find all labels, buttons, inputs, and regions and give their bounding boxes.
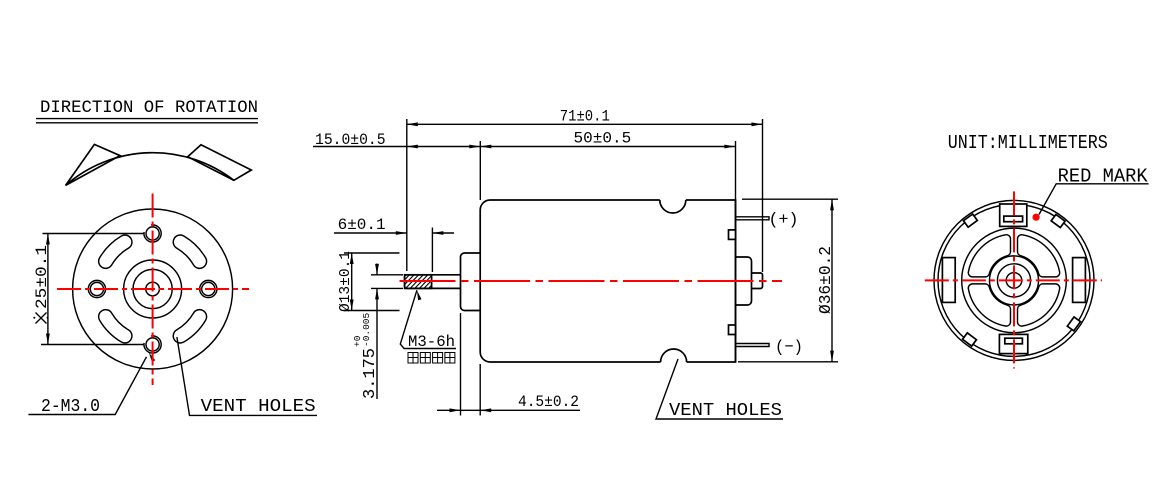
dim line 15.0 / 50 shared row [313,146,735,148]
rear bearing boss (side) [736,257,752,305]
front vent slot 3 [99,310,132,343]
M3-6h leader [400,290,456,348]
rear top tab slot [1004,216,1023,222]
svg-text:DIRECTION OF ROTATION: DIRECTION OF ROTATION [40,98,258,118]
svg-text:50±0.5: 50±0.5 [574,130,632,148]
side view motor body [480,200,735,362]
title double underline [36,118,258,120]
front shaft circle [146,282,160,296]
front mounting hole S inner circle [146,338,159,351]
rear view inner rim circle [938,204,1090,356]
front view red centerline horizontal [57,288,249,290]
threaded shaft section M3 (hatched) [391,274,457,290]
red mark dot [1033,214,1040,221]
front hole S thread arc (3/4 circle) [144,336,161,353]
front hole W outer circle [88,280,105,297]
ext line right (rear nub) [762,119,764,272]
rear right side plate [1073,258,1086,303]
side body right edge vertical [735,200,737,362]
rear crimp tab at 233.0° [963,333,977,346]
front view motor outer circle [73,209,233,369]
brush tab lower (side) [729,325,736,335]
bottom vent notch (side) [661,349,687,362]
front boss circle [124,260,182,318]
front mounting hole E inner circle [202,282,215,295]
dim 25±0.1 extension line top [43,233,145,235]
VENT HOLES (side) underline and leader [656,359,783,419]
svg-text:UNIT:MILLIMETERS: UNIT:MILLIMETERS [948,132,1108,154]
4.5 ext lines [460,313,462,416]
rear crimp tab at 126.1° [963,214,977,227]
ext line left (shaft tip) [406,119,408,271]
rear shaft nub [752,273,763,289]
rotation arrow tail vane [188,145,252,181]
dim 25±0.1 dimension line [47,234,49,345]
front mounting hole N inner circle [146,227,159,240]
svg-text:6±0.1: 6±0.1 [338,216,386,234]
VENT HOLES underline and leader [177,337,317,415]
dim 25±0.1 extension line bottom [41,344,144,346]
svg-text:-0.005: -0.005 [361,312,372,347]
svg-text:4.5±0.2: 4.5±0.2 [518,393,579,411]
Ø13 ext lines [344,252,400,254]
front view red centerline vertical [152,194,154,386]
rear red centerline vertical [1013,191,1015,368]
label 右旋螺纹 (right-hand thread, CJK glyph shapes) [408,353,455,364]
rear vent slot 4 [968,235,1010,277]
rear vent slot 2 [1018,284,1060,326]
svg-text:VENT HOLES: VENT HOLES [201,397,316,417]
rear left side plate [942,258,955,303]
Ø36 ext lines [742,198,838,200]
front vent slot 4 [173,310,206,343]
rotation direction curved arrow [66,153,234,186]
front mounting hole W inner circle [90,282,103,295]
rear red centerline horizontal [925,279,1102,281]
dim Ø36 dimension line [831,199,833,362]
dim text ※25±0.1 (rotated) [33,245,51,309]
thread section outline [405,275,432,289]
rear bottom terminal tab [999,334,1027,353]
front vent slot 2 [99,235,132,268]
dim 3.175 (rotated) [352,312,380,399]
dim 6±0.1 dimension line [334,232,407,234]
rear view outer circle [934,200,1094,360]
rear shaft circle [1006,273,1022,289]
terminal (+) [736,217,770,220]
front mounting boss (side) [461,253,481,311]
dim Ø36±0.2 (rotated) [817,246,836,314]
front hole N thread arc (3/4 circle) [144,225,161,242]
rear boss circle [990,256,1039,305]
RED MARK underline and leader [1039,184,1149,215]
rear bottom tab slot [1005,338,1023,344]
reference mark ※ glyph [33,313,48,324]
rotation arrowhead triangle [66,144,120,185]
rear crimp tab at 53.4° [1051,214,1065,227]
top vent notch (side) [660,200,686,213]
svg-text:Ø36±0.2: Ø36±0.2 [817,246,836,314]
dim 71 dimension line [407,123,763,125]
terminal (-) [736,344,770,347]
ext line body front [479,141,481,200]
shaft [405,275,461,289]
rear vent plate circle [962,228,1067,333]
dim 4.5 dimension line [437,409,580,411]
front hole E outer circle [200,280,217,297]
ext line thread end [431,228,433,273]
dim 3.175 dimension line [376,264,378,275]
label 2-M3.0 underline and leader [28,357,146,415]
dim Ø13 dimension line [351,253,353,311]
rear boss mid circle [997,264,1030,297]
ext line body rear top [735,141,737,200]
rear crimp tab at 324.0° [1067,317,1080,331]
3.175 ext lines [371,274,403,276]
svg-text:(+): (+) [769,211,799,230]
side view red centerline [400,280,783,282]
rear top terminal tab [1000,204,1027,226]
svg-text:25±0.1: 25±0.1 [33,245,51,309]
front boss inner circle [133,269,172,308]
brush tab upper (side) [729,230,736,240]
front vent slot 1 [173,235,206,268]
svg-text:71±0.1: 71±0.1 [560,108,610,126]
rear vent slot 3 [968,284,1010,326]
dim Ø13±0.1 (rotated) [337,251,354,312]
svg-text:(−): (−) [775,339,803,358]
svg-text:VENT HOLES: VENT HOLES [669,401,782,421]
rear vent slot 1 [1017,235,1059,277]
